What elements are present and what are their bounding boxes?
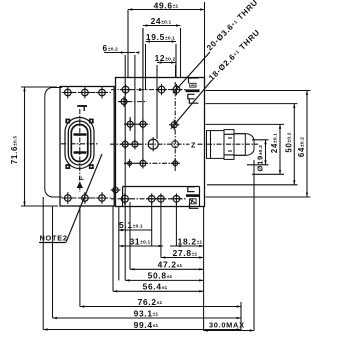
svg-text:Z: Z: [191, 140, 196, 149]
svg-text:30.0MAX: 30.0MAX: [209, 321, 245, 330]
svg-text:F: F: [77, 175, 86, 180]
